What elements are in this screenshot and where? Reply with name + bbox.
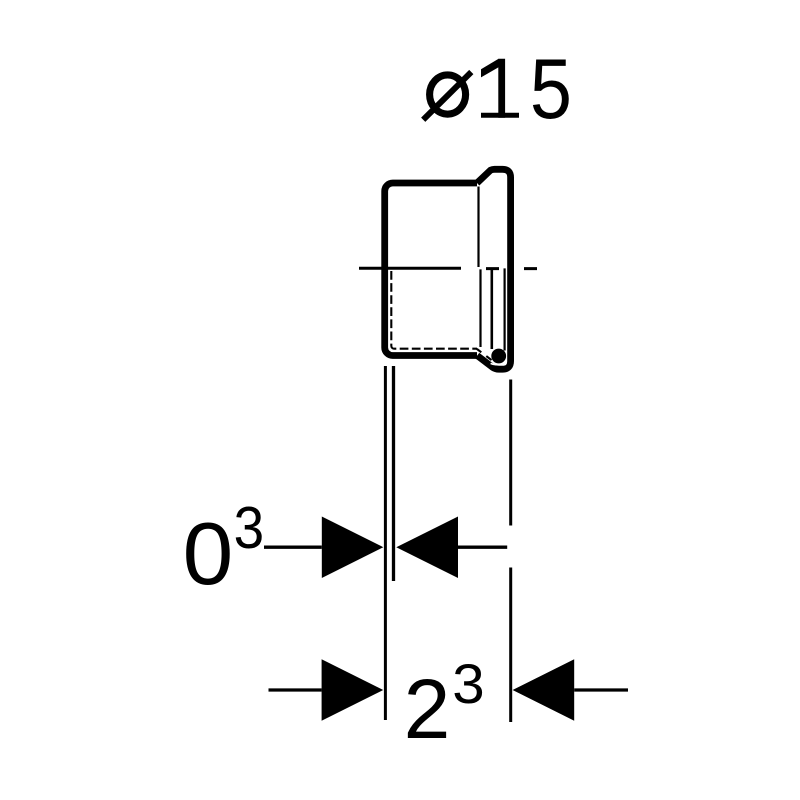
dim 0.3 tail line: [458, 546, 507, 549]
svg-text:3: 3: [234, 495, 265, 561]
dimension 0.3 label: [183, 495, 265, 602]
svg-text:5: 5: [530, 42, 572, 137]
dimension label ø15: [423, 42, 572, 137]
rolled lip fill band: [477, 349, 492, 360]
inner thin lines lower half: [479, 269, 481, 347]
inner thin line upper half (socket root): [477, 187, 479, 268]
extension line left inner face: [392, 366, 395, 581]
dim 0.3 arrow right-pointing: [322, 517, 384, 579]
extension line left outer face: [384, 366, 387, 720]
dimension 2.3 label: [404, 653, 485, 756]
o-ring (seal) section dot: [491, 349, 506, 364]
digit 1 (footed, drawn as paths): [498, 59, 505, 118]
white gap arc inside rolled end: [491, 352, 506, 364]
extension line right face (broken): [509, 380, 512, 723]
cap body outline: [385, 183, 477, 356]
centre line: [359, 267, 537, 270]
svg-text:3: 3: [452, 653, 484, 715]
hidden (dashed) inner line, lower half: [391, 271, 477, 349]
press socket bead outline: [477, 169, 511, 369]
svg-text:0: 0: [183, 504, 234, 602]
dim 2.3 left line: [269, 688, 322, 691]
svg-text:2: 2: [404, 662, 451, 756]
dim 0.3 leader line: [264, 546, 322, 549]
dim 2.3 arrow left-pointing: [513, 659, 575, 720]
dim 2.3 arrow right-pointing: [322, 659, 384, 720]
dim 2.3 right line: [574, 688, 628, 691]
dim 0.3 arrow left-pointing: [396, 517, 458, 579]
